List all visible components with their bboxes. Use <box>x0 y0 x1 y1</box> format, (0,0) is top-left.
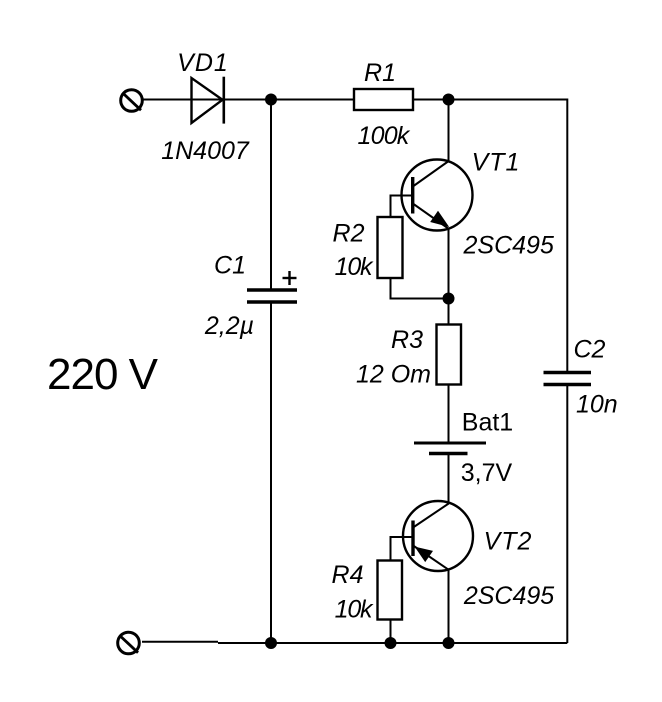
resistor R4 <box>378 561 403 620</box>
svg-text:C2: C2 <box>574 336 606 364</box>
wire bottom rail <box>218 642 567 644</box>
svg-text:VT1: VT1 <box>472 149 521 177</box>
diode VD1 <box>192 77 224 124</box>
resistor R3 <box>437 325 462 385</box>
svg-text:VT2: VT2 <box>484 528 533 556</box>
svg-text:1N4007: 1N4007 <box>161 137 250 165</box>
wire terminal X1 to node A (passes through diode) <box>142 99 271 101</box>
node F (junction bottom of VT2 emitter) <box>443 637 455 649</box>
svg-text:220 V: 220 V <box>47 350 159 399</box>
svg-text:R1: R1 <box>364 59 396 87</box>
svg-text:3,7V: 3,7V <box>461 459 513 487</box>
terminal X1 (top left input) <box>121 90 143 112</box>
svg-text:10n: 10n <box>576 391 618 419</box>
battery Bat1 <box>414 443 486 454</box>
svg-text:R2: R2 <box>333 220 365 248</box>
terminal X2 (bottom left) <box>118 632 140 654</box>
svg-text:R4: R4 <box>332 561 364 589</box>
svg-text:2SC495: 2SC495 <box>463 232 554 260</box>
capacitor C2 <box>544 373 592 385</box>
node A (junction top of C1) <box>265 94 277 106</box>
svg-text:VD1: VD1 <box>177 49 229 77</box>
wire VT1 emitter down to node C <box>448 229 450 299</box>
svg-text:2,2µ: 2,2µ <box>204 312 254 340</box>
svg-text:Bat1: Bat1 <box>462 409 513 437</box>
wire R2 bottom to node C <box>391 278 449 299</box>
svg-text:R3: R3 <box>391 326 423 354</box>
wire R1 to top-right corner (through node B) <box>413 99 567 101</box>
wire C2 down to bottom-right corner <box>566 385 568 644</box>
wire node A down to capacitor C1 <box>270 100 272 290</box>
polarity plus sign of C1 <box>283 271 297 285</box>
wire VT1 base to R2 <box>391 196 413 218</box>
wire R4 bottom to bottom rail <box>390 620 392 644</box>
wire node C to resistor R3 <box>448 299 450 326</box>
transistor VT1 <box>402 160 473 231</box>
transistor VT2 <box>403 501 473 571</box>
node C (junction emitter VT1 / R2 / R3) <box>443 293 455 305</box>
svg-text:100k: 100k <box>357 122 410 150</box>
wire C1 down to bottom rail <box>270 302 272 643</box>
svg-text:C1: C1 <box>214 252 246 280</box>
svg-text:10k: 10k <box>335 596 374 624</box>
node D (junction bottom of C1) <box>265 637 277 649</box>
wire right side down to capacitor C2 <box>566 99 568 373</box>
svg-text:12 Om: 12 Om <box>356 361 431 389</box>
wire diode VD1 to resistor R1 (through node A) <box>222 99 354 101</box>
wire R3 to battery Bat1 <box>448 385 450 444</box>
wire VT2 emitter down to bottom rail <box>448 570 450 643</box>
wire bottom rail left segment <box>142 641 218 643</box>
wire VT2 base to R4 <box>391 537 414 561</box>
svg-text:10k: 10k <box>335 253 374 281</box>
capacitor C1 <box>247 290 297 302</box>
svg-text:2SC495: 2SC495 <box>463 582 554 610</box>
wire battery to transistor VT2 collector <box>448 454 450 505</box>
wire node B down to transistor VT1 collector <box>448 100 450 163</box>
resistor R2 <box>378 217 403 278</box>
node B (junction top of VT1 collector) <box>443 94 455 106</box>
node E (junction bottom of R4) <box>385 637 397 649</box>
resistor R1 <box>354 89 413 110</box>
